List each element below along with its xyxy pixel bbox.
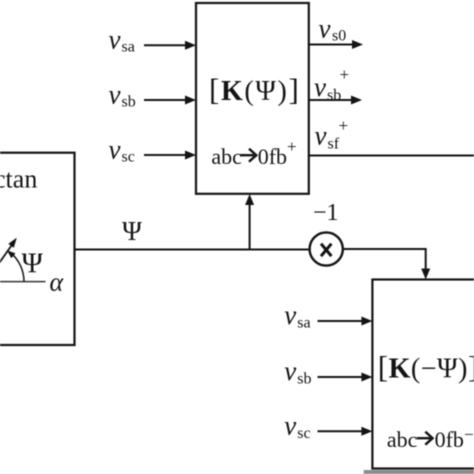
svg-text:v: v <box>284 410 296 440</box>
svg-text:sb: sb <box>297 371 311 388</box>
svg-text:Ψ: Ψ <box>122 216 142 246</box>
svg-text:sb: sb <box>122 93 136 110</box>
input arrow v_sa (bottom block) <box>318 320 363 322</box>
svg-text:−: − <box>464 425 474 444</box>
svg-text:v: v <box>284 356 296 386</box>
wire from multiplier to bottom block <box>343 249 426 269</box>
x symbol in multiplier <box>321 244 331 256</box>
axis line alpha <box>0 281 46 283</box>
output wire v_sf+ <box>309 155 474 157</box>
svg-text:v: v <box>109 134 121 164</box>
vector arrow in arctan box <box>0 246 12 282</box>
multiplier circle <box>310 232 343 265</box>
angle arc Psi <box>10 253 24 282</box>
shadow under bottom block <box>364 470 474 474</box>
block K(-Psi) abc->0fb- (bottom right) <box>372 280 474 469</box>
svg-text:[K(−Ψ)]: [K(−Ψ)] <box>378 350 474 385</box>
svg-text:−1: −1 <box>313 200 339 226</box>
svg-text:0fb: 0fb <box>258 144 287 169</box>
svg-text:v: v <box>109 24 121 54</box>
svg-text:s0: s0 <box>332 28 346 45</box>
branch wire up into top block <box>249 204 251 250</box>
svg-text:v: v <box>284 300 296 330</box>
svg-text:abc: abc <box>211 144 242 169</box>
svg-text:sa: sa <box>297 315 310 332</box>
svg-text:sa: sa <box>122 38 135 55</box>
output arrow v_sb+ <box>309 99 352 101</box>
block K(Psi) abc->0fb+ (top) <box>196 3 309 194</box>
svg-text:Ψ: Ψ <box>22 248 44 280</box>
svg-text:[K(Ψ)]: [K(Ψ)] <box>209 72 300 107</box>
svg-text:v: v <box>314 72 326 102</box>
wire Psi <box>74 249 310 251</box>
svg-text:sc: sc <box>122 148 135 165</box>
input arrow v_sc (bottom block) <box>318 430 363 432</box>
input arrow v_sa (top block) <box>144 44 186 46</box>
input arrow v_sb (top block) <box>144 99 186 101</box>
svg-text:+: + <box>339 116 349 135</box>
input arrow v_sc (top block) <box>144 154 186 156</box>
block arctan (left box) <box>0 153 75 345</box>
svg-text:sf: sf <box>328 136 340 153</box>
output arrow v_s0 <box>309 44 353 46</box>
svg-text:v: v <box>315 121 327 151</box>
svg-text:+: + <box>340 65 350 84</box>
svg-text:v: v <box>109 79 121 109</box>
svg-text:v: v <box>319 14 331 44</box>
svg-text:sc: sc <box>297 425 310 442</box>
svg-text:0fb: 0fb <box>435 427 464 452</box>
svg-text:sb: sb <box>327 87 341 104</box>
input arrow v_sb (bottom block) <box>318 376 363 378</box>
svg-text:abc: abc <box>387 427 418 452</box>
svg-text:+: + <box>287 137 297 156</box>
svg-text:arctan: arctan <box>0 165 37 194</box>
svg-text:α: α <box>50 268 65 297</box>
